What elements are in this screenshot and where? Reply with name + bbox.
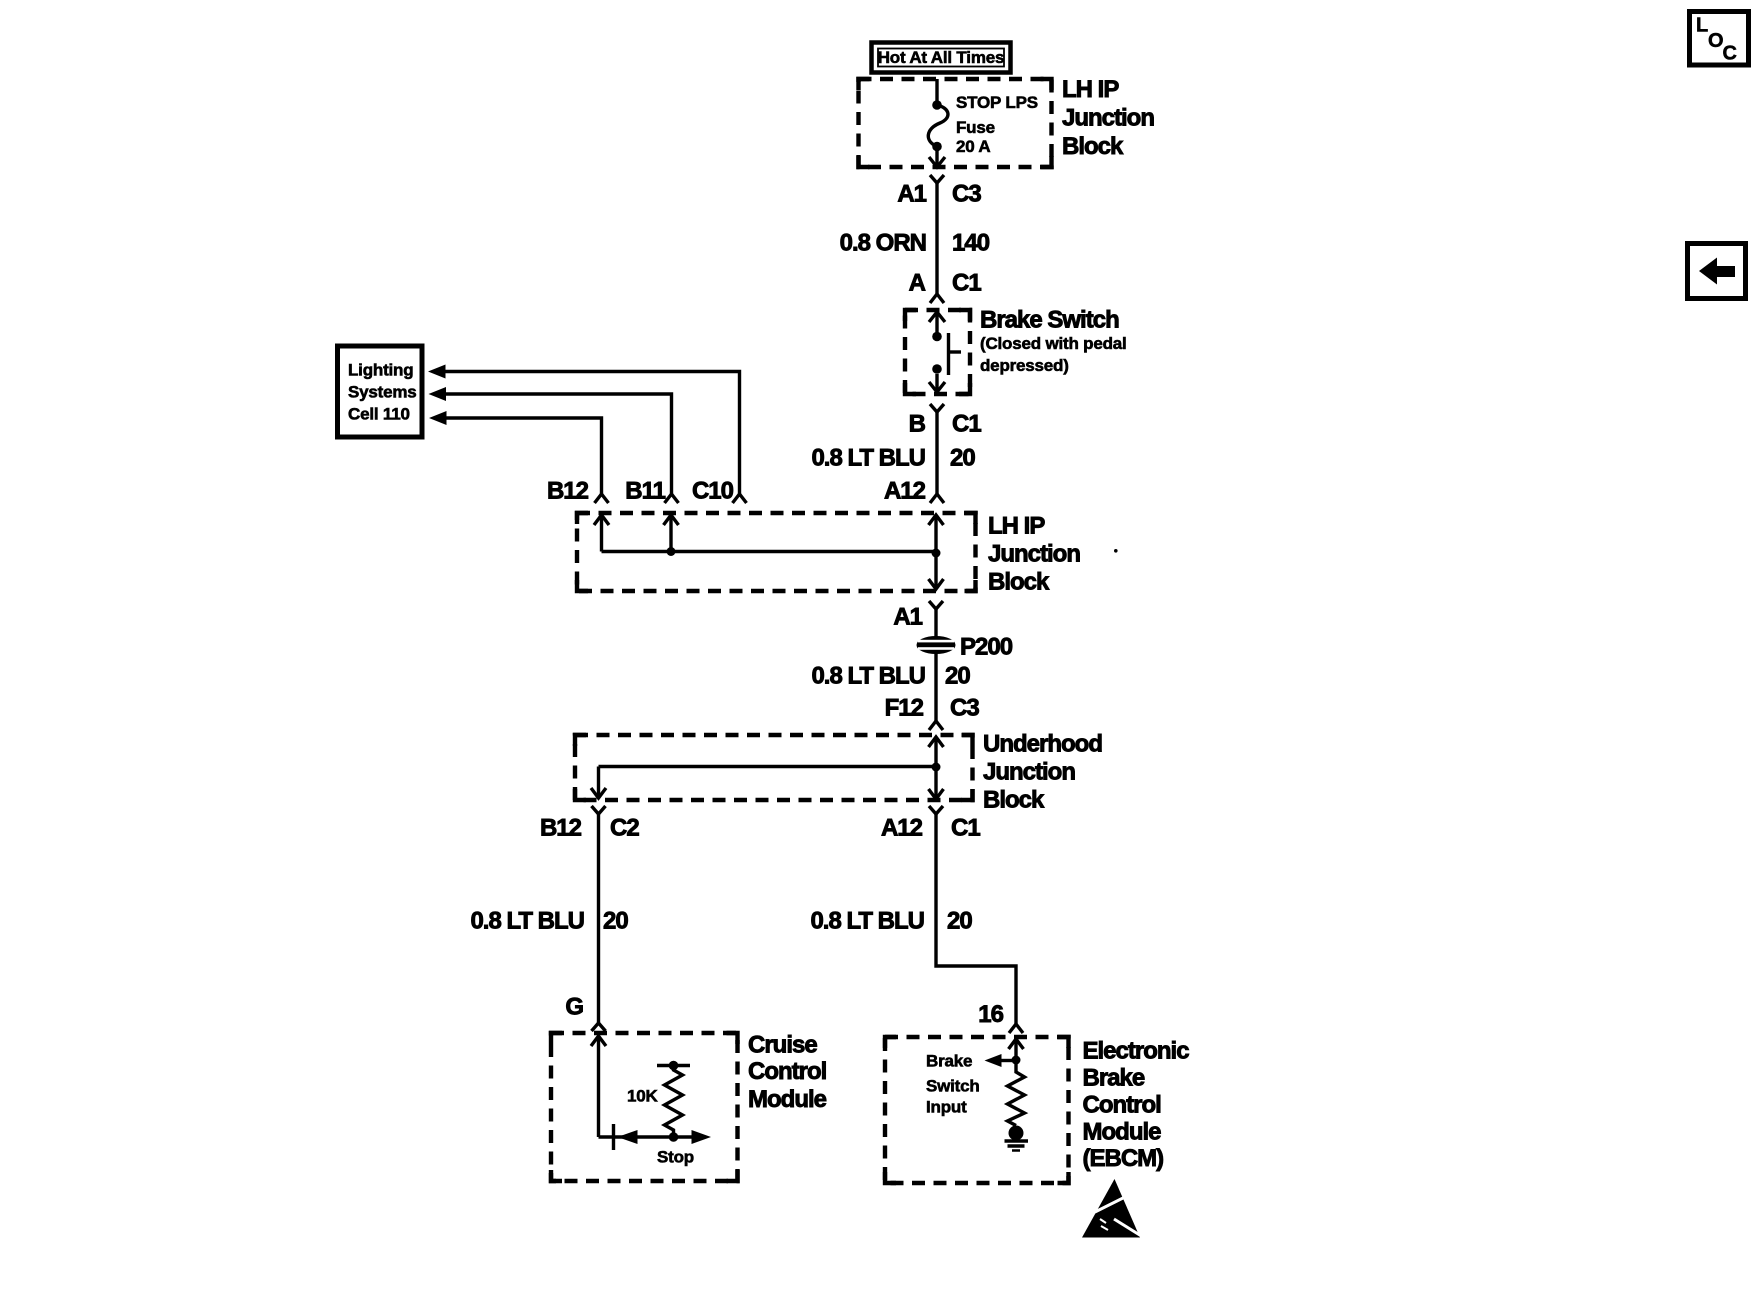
svg-text:B11: B11	[625, 478, 665, 505]
svg-text:(EBCM): (EBCM)	[1083, 1145, 1164, 1172]
Underhood Junction Block dashed outline	[575, 735, 973, 800]
underhood internal bus wire	[599, 765, 937, 768]
label: LH IP Junction Block (fuse block)	[1062, 76, 1154, 160]
connector terminal A12 C1 (Y below underhood block)	[881, 806, 980, 842]
brake switch contact dot (bottom)	[932, 364, 942, 374]
svg-text:Hot At All Times: Hot At All Times	[878, 48, 1005, 67]
terminal A12 label and connector half	[884, 478, 944, 505]
svg-text:LH IP: LH IP	[988, 513, 1045, 540]
connector C3 terminal A1 (in-line Y)	[897, 175, 981, 208]
svg-text:B: B	[909, 411, 926, 438]
svg-text:0.8 LT BLU: 0.8 LT BLU	[470, 908, 584, 935]
wire 0.8 LT BLU 20 (to cruise control module)	[470, 814, 628, 1023]
svg-text:A1: A1	[893, 604, 922, 631]
stop switch left arrowhead	[618, 1130, 638, 1144]
svg-text:Electronic: Electronic	[1083, 1038, 1190, 1065]
svg-text:F12: F12	[885, 695, 924, 722]
svg-text:Switch: Switch	[926, 1077, 980, 1096]
brake switch terminal arrow (bottom)	[929, 374, 945, 392]
cruise module entry arrow (G)	[591, 1036, 606, 1137]
svg-text:20: 20	[950, 445, 975, 472]
connector terminal B12 C2 (Y below underhood block)	[540, 806, 639, 842]
svg-text:Brake Switch: Brake Switch	[980, 307, 1119, 334]
underhood exit arrow to A12	[929, 767, 944, 799]
svg-text:Cruise: Cruise	[748, 1032, 817, 1059]
terminal 16 label and connector half	[978, 1001, 1023, 1033]
junction dot A12	[932, 549, 941, 558]
Brake Switch dashed box	[905, 310, 970, 394]
svg-text:16: 16	[978, 1001, 1003, 1028]
svg-text:Brake: Brake	[1083, 1065, 1145, 1092]
svg-text:A12: A12	[881, 815, 923, 842]
svg-text:Lighting: Lighting	[348, 361, 413, 380]
svg-text:depressed): depressed)	[980, 356, 1069, 375]
svg-text:Block: Block	[983, 787, 1045, 814]
svg-text:20: 20	[945, 663, 970, 690]
svg-text:20: 20	[947, 908, 972, 935]
svg-text:10K: 10K	[627, 1087, 659, 1106]
Electronic Brake Control Module (EBCM) dashed box	[885, 1037, 1069, 1183]
power label box: Hot At All Times	[872, 43, 1011, 73]
svg-text:L: L	[1696, 15, 1708, 37]
connector terminal A1 (Y below junction block)	[893, 601, 943, 631]
junction dot underhood	[932, 763, 941, 772]
wire to lighting systems (from B11)	[429, 387, 672, 494]
cruise module switch wiper line	[599, 1135, 695, 1138]
svg-text:STOP LPS: STOP LPS	[956, 93, 1038, 112]
svg-text:Junction: Junction	[1062, 105, 1154, 132]
svg-text:Control: Control	[748, 1058, 826, 1085]
brake switch input arrow	[985, 1054, 1017, 1067]
svg-text:C: C	[1723, 43, 1737, 65]
svg-text:Block: Block	[1062, 133, 1124, 160]
connector C1 terminal A labels	[909, 270, 982, 297]
svg-text:O: O	[1708, 30, 1724, 52]
junction dot EBCM	[1012, 1056, 1021, 1065]
svg-text:Module: Module	[748, 1086, 827, 1113]
svg-text:C10: C10	[692, 478, 734, 505]
label Brake Switch Input	[926, 1052, 980, 1117]
resistor 10K top bar	[657, 1061, 690, 1071]
terminal G label and connector half	[565, 994, 605, 1032]
junction dot B11	[667, 547, 676, 556]
LH IP Junction Block (fuse block) dashed outline	[859, 79, 1052, 167]
svg-text:Module: Module	[1083, 1119, 1162, 1146]
junction dot at resistor bottom	[669, 1132, 679, 1142]
label: Brake Switch	[980, 307, 1127, 376]
svg-text:Junction: Junction	[988, 541, 1080, 568]
svg-text:C3: C3	[950, 695, 979, 722]
svg-text:Stop: Stop	[657, 1148, 694, 1167]
svg-text:Junction: Junction	[983, 759, 1075, 786]
svg-text:C2: C2	[610, 815, 639, 842]
fuse STOP LPS 20 A	[928, 93, 1038, 156]
svg-text:C3: C3	[952, 181, 981, 208]
junction block B11 entry arrow	[664, 515, 679, 552]
svg-text:Control: Control	[1083, 1092, 1161, 1119]
wire 0.8 LT BLU 20 (to EBCM)	[810, 814, 1016, 1024]
svg-text:A: A	[909, 270, 926, 297]
svg-text:Cell 110: Cell 110	[348, 405, 410, 424]
wire 0.8 LT BLU 20 (P200 to underhood block)	[811, 653, 970, 721]
svg-text:C1: C1	[951, 815, 980, 842]
back arrow icon	[1688, 244, 1746, 299]
label: Cruise Control Module	[748, 1032, 827, 1114]
svg-text:C1: C1	[952, 411, 981, 438]
junction block exit arrow to A1	[929, 579, 944, 589]
underhood block entry arrow (F12)	[929, 737, 944, 767]
svg-text:B12: B12	[540, 815, 582, 842]
underhood exit arrow to B12	[591, 767, 606, 799]
label: LH IP Junction Block	[988, 513, 1080, 596]
Cruise Control Module dashed box	[551, 1033, 738, 1181]
terminal B12 connector half and label	[547, 478, 609, 505]
svg-text:20 A: 20 A	[956, 137, 990, 156]
grommet P200	[917, 634, 1013, 661]
svg-text:C1: C1	[952, 270, 981, 297]
svg-text:A12: A12	[884, 478, 926, 505]
junction block A12 entry arrow	[929, 515, 944, 589]
wire to lighting systems (from B12)	[429, 411, 602, 494]
svg-text:A1: A1	[897, 181, 926, 208]
switch contact tick	[612, 1124, 615, 1150]
svg-text:B12: B12	[547, 478, 589, 505]
label: Electronic Brake Control Module (EBCM)	[1083, 1038, 1190, 1173]
terminal C10 connector half and label	[692, 478, 747, 505]
svg-text:0.8 LT BLU: 0.8 LT BLU	[811, 663, 925, 690]
ESD sensitive device symbol	[1082, 1179, 1141, 1238]
svg-text:0.8 LT BLU: 0.8 LT BLU	[810, 908, 924, 935]
junction block B12 entry arrow	[594, 515, 609, 552]
terminal F12 C3 labels and connector half	[885, 695, 980, 731]
svg-text:Underhood: Underhood	[983, 731, 1102, 758]
svg-text:LH IP: LH IP	[1062, 76, 1119, 103]
EBCM internal resistor zigzag	[1008, 1060, 1025, 1126]
connector C1 terminal B (Y below brake switch)	[909, 404, 982, 438]
brake switch lever	[949, 333, 962, 375]
wire 0.8 ORN 140	[840, 183, 990, 294]
svg-text:Block: Block	[988, 569, 1050, 596]
ground (chassis)	[1005, 1126, 1029, 1151]
svg-text:Fuse: Fuse	[956, 118, 995, 137]
stop switch right arrowhead	[692, 1130, 712, 1144]
svg-text:(Closed with pedal: (Closed with pedal	[980, 334, 1127, 353]
svg-text:P200: P200	[960, 634, 1013, 661]
EBCM entry arrow (16)	[1009, 1039, 1024, 1060]
wire to lighting systems (from C10)	[428, 365, 740, 495]
wire: battery feed into fuse	[935, 79, 938, 104]
Lighting Systems Cell 110 box	[338, 346, 423, 437]
wire 0.8 LT BLU 20 (brake switch to junction block)	[811, 412, 975, 494]
brake switch terminal arrow (top)	[929, 312, 945, 332]
svg-text:0.8 LT BLU: 0.8 LT BLU	[811, 445, 925, 472]
svg-text:20: 20	[603, 908, 628, 935]
svg-text:140: 140	[952, 230, 990, 257]
svg-text:Brake: Brake	[926, 1052, 972, 1071]
connector half (inverted Y) entering brake switch	[930, 294, 944, 303]
wire into P200	[934, 609, 937, 637]
LH IP Junction Block dashed outline	[577, 513, 976, 591]
svg-text:Systems: Systems	[348, 383, 417, 402]
svg-text:0.8 ORN: 0.8 ORN	[840, 230, 926, 257]
terminal B11 connector half and label	[625, 478, 678, 505]
brake switch contact dot (top)	[932, 332, 942, 342]
label: Underhood Junction Block	[983, 731, 1102, 814]
LOC icon	[1690, 12, 1749, 66]
wire + arrow: fuse output exiting fuse block	[929, 147, 945, 168]
junction block internal bus wire	[602, 550, 937, 553]
svg-text:G: G	[565, 994, 583, 1021]
speck	[1114, 549, 1118, 553]
resistor 10K zigzag	[665, 1066, 683, 1138]
svg-text:Input: Input	[926, 1098, 967, 1117]
